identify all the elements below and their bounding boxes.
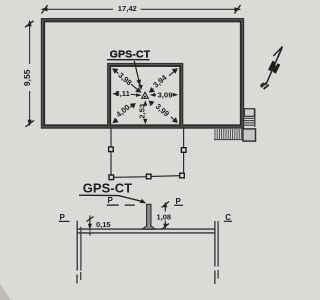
svg-text:0,15: 0,15 <box>96 220 111 229</box>
svg-text:17,42: 17,42 <box>118 4 137 13</box>
svg-text:1,08: 1,08 <box>157 212 172 221</box>
svg-text:GPS-CT: GPS-CT <box>110 49 151 60</box>
svg-text:C: C <box>225 213 231 222</box>
svg-text:2,53: 2,53 <box>138 104 147 119</box>
svg-text:P: P <box>176 197 182 206</box>
svg-text:P: P <box>108 196 114 205</box>
svg-text:P: P <box>60 213 66 222</box>
svg-text:3,09: 3,09 <box>158 91 173 100</box>
svg-text:3,11: 3,11 <box>115 89 130 98</box>
svg-text:GPS-CT: GPS-CT <box>83 181 132 196</box>
svg-text:9,55: 9,55 <box>22 69 32 86</box>
